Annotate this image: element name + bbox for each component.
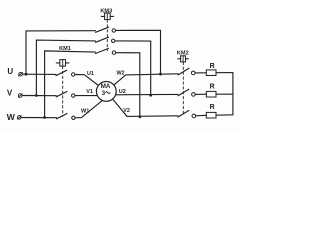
svg-text:V: V xyxy=(7,89,13,98)
svg-text:MA: MA xyxy=(101,83,111,90)
svg-text:W: W xyxy=(7,112,16,122)
wire R2 to star point xyxy=(216,93,233,95)
terminal W circle xyxy=(17,116,21,120)
wire R1 to star point xyxy=(216,72,233,74)
resistor R2 xyxy=(206,91,216,97)
wire motor W2 to KM2.1 xyxy=(114,74,178,85)
wire KM1.3 to motor W1 xyxy=(75,101,102,118)
KM3 linkage dashed xyxy=(106,20,108,51)
wire W rail xyxy=(21,117,56,119)
node junction V riser xyxy=(35,94,38,97)
contact KM2.1 xyxy=(178,68,195,75)
node junction U2/KM3.2 xyxy=(149,94,152,97)
contact KM3.3 xyxy=(96,48,116,54)
contactor KM1 coil box xyxy=(56,60,69,67)
KM2 linkage dashed xyxy=(182,62,184,115)
motor MA xyxy=(96,82,116,102)
svg-text:3: 3 xyxy=(102,90,106,97)
contact KM3.1 xyxy=(96,27,116,32)
wire KM2.1 to R1 xyxy=(195,72,206,74)
contact KM3.2 xyxy=(96,37,115,42)
wire star point vertical xyxy=(232,73,234,115)
wire W riser to KM3 bottom contact xyxy=(45,51,96,118)
node junction U riser xyxy=(25,73,28,76)
svg-text:R: R xyxy=(210,83,215,90)
wire motor V2 to KM2.3 xyxy=(113,99,178,116)
svg-text:R: R xyxy=(210,104,215,111)
svg-text:V1: V1 xyxy=(86,89,93,95)
svg-text:U2: U2 xyxy=(119,89,126,95)
wire U rail xyxy=(22,73,56,75)
wire KM3.2 to node U2 xyxy=(115,41,151,95)
contact KM1.1 xyxy=(56,70,75,76)
wire KM2.3 to R3 xyxy=(196,114,207,117)
wire KM2.2 to R2 xyxy=(195,93,206,95)
contactor KM3 coil box xyxy=(101,13,113,20)
wire KM1.1 to motor U1 xyxy=(75,75,98,86)
svg-text:R: R xyxy=(210,63,215,70)
svg-text:U1: U1 xyxy=(87,71,94,77)
contactor KM2 coil box xyxy=(178,56,189,62)
terminal U circle xyxy=(19,72,23,76)
KM1 linkage dashed xyxy=(62,66,64,116)
wire V rail xyxy=(22,95,56,97)
contact KM1.3 xyxy=(56,114,75,120)
svg-text:KM1: KM1 xyxy=(59,46,71,52)
terminal V circle xyxy=(18,94,22,98)
contact KM2.3 xyxy=(178,111,196,118)
svg-text:U: U xyxy=(7,67,13,76)
svg-text:W2: W2 xyxy=(116,71,124,77)
resistor R1 xyxy=(206,70,216,76)
wire V riser to KM3 middle contact xyxy=(36,40,95,95)
node junction W2/KM3.1 xyxy=(159,73,162,76)
wire motor U2 to KM2.2 xyxy=(116,93,178,95)
contact KM2.2 xyxy=(178,89,195,96)
resistor R3 xyxy=(206,112,216,118)
wire KM3.3 to node V2 xyxy=(116,53,140,117)
wire KM1.2 to motor V1 xyxy=(75,95,97,97)
wire KM3.1 to node W2 xyxy=(116,30,161,74)
wire R3 to star point xyxy=(216,114,233,116)
node junction V2/KM3.3 xyxy=(138,115,141,118)
node junction W riser xyxy=(43,116,46,119)
contact KM1.2 xyxy=(56,92,75,98)
wire U riser to KM3 top contact xyxy=(26,31,96,74)
